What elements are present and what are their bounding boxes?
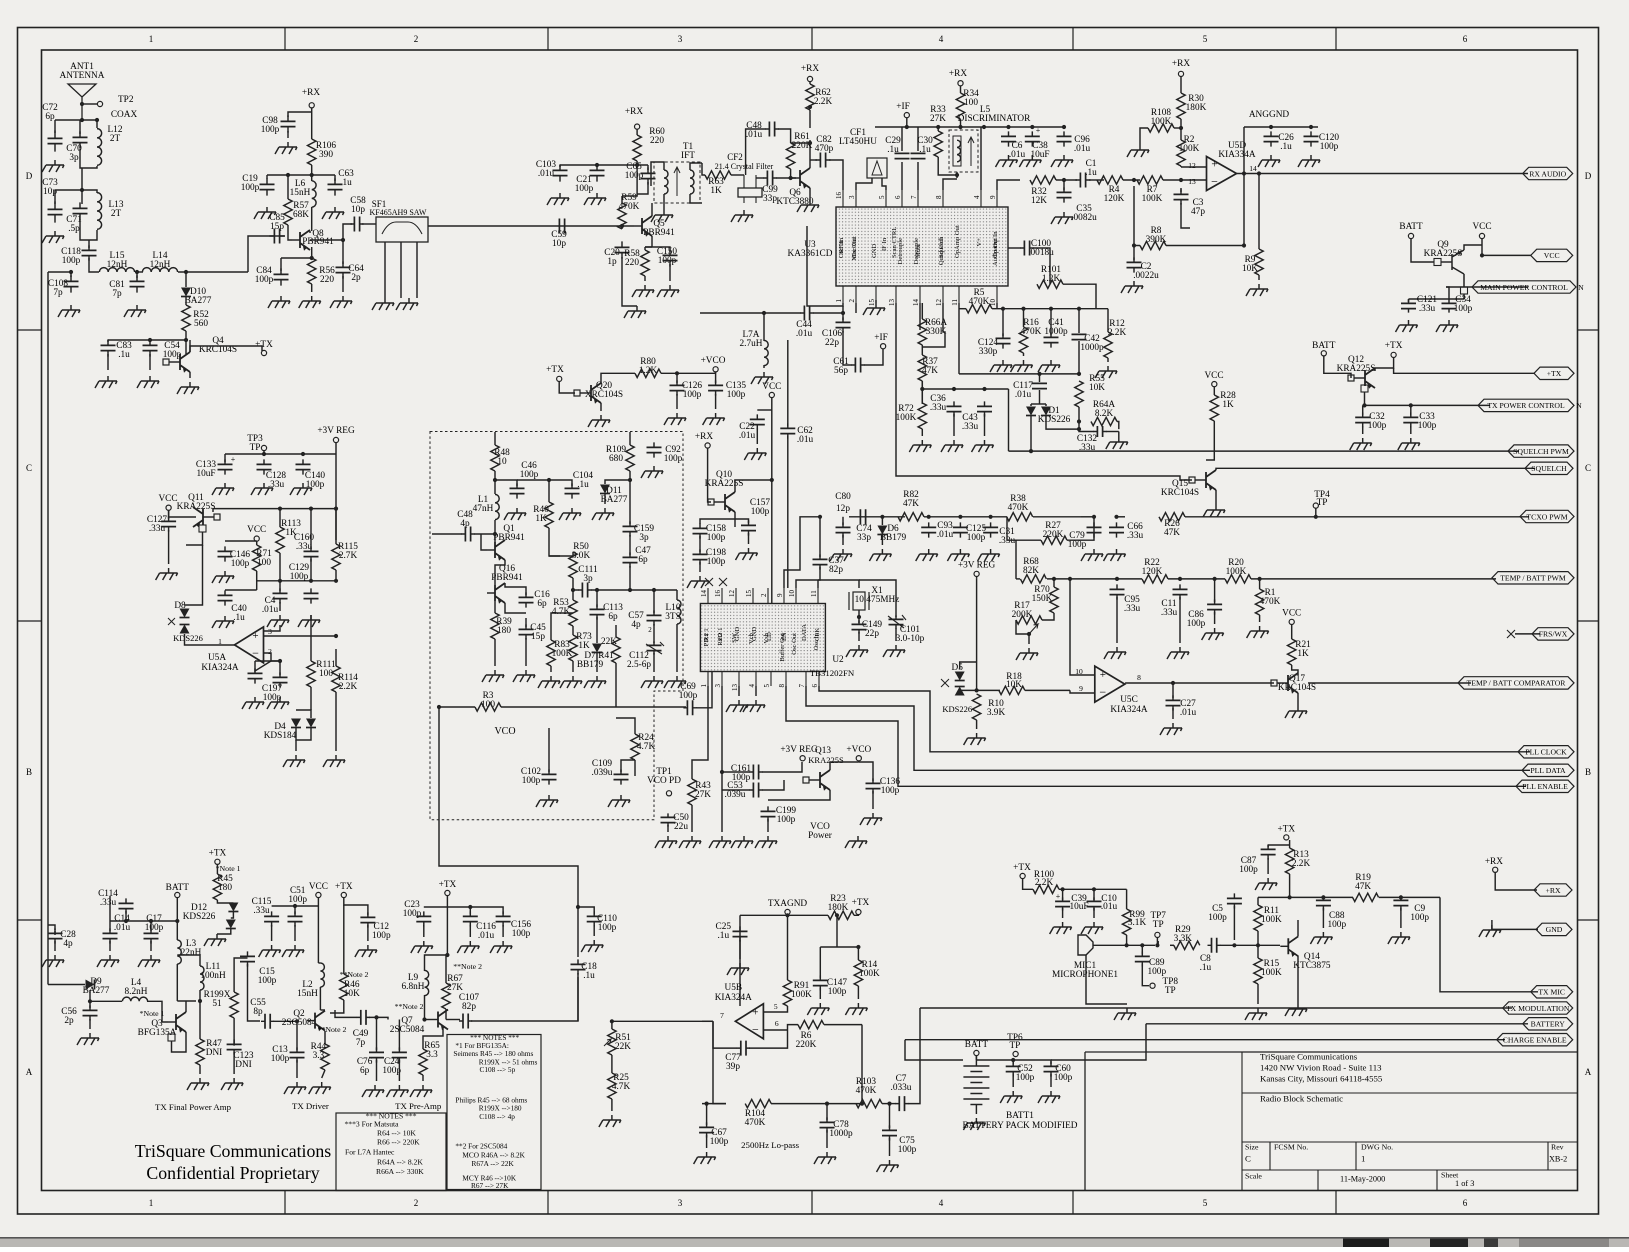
wire [310, 559, 312, 581]
svg-text:C: C [26, 463, 32, 473]
wire [1033, 248, 1050, 270]
svg-text:R1947K: R1947K [1355, 873, 1371, 892]
wire [975, 1104, 977, 1114]
wire audio out [997, 180, 1020, 190]
resistor R20 [1225, 575, 1251, 583]
wire charge enable line [905, 1039, 1505, 1041]
wire u5c minus [1070, 690, 1095, 693]
wire CF1 pin3 [856, 178, 872, 190]
ground [212, 483, 234, 495]
wire [1050, 1074, 1052, 1087]
wire [311, 108, 313, 139]
wire discriminator rail [875, 126, 1064, 128]
wire [830, 762, 859, 770]
power +RX [309, 103, 314, 108]
svg-text:+TX: +TX [209, 849, 227, 859]
svg-text:TX Driver: TX Driver [292, 1101, 329, 1111]
junction [445, 953, 449, 957]
junction [341, 238, 345, 242]
ground [482, 670, 504, 682]
svg-text:TEMP / BATT PWM: TEMP / BATT PWM [1500, 574, 1566, 583]
junction [1092, 887, 1096, 891]
wire [1181, 166, 1207, 168]
svg-text:C92100p: C92100p [664, 445, 683, 464]
wire [185, 1020, 187, 1022]
power +TX q20 [557, 376, 562, 381]
wire [1446, 287, 1449, 299]
svg-text:A: A [1585, 1067, 1592, 1077]
wire [1007, 517, 1041, 540]
wire [702, 1020, 713, 1022]
power +TX pre [445, 890, 450, 895]
junction [1052, 577, 1056, 581]
U3 pin 5 IF In [885, 190, 887, 207]
svg-text:R47DNI: R47DNI [206, 1039, 223, 1058]
wire [858, 610, 860, 623]
svg-text:VCOPower: VCOPower [808, 822, 833, 841]
wire [82, 103, 97, 105]
wire [446, 1009, 448, 1011]
wire [469, 925, 471, 937]
wire [343, 224, 352, 240]
svg-text:R64 --> 10K: R64 --> 10K [377, 1129, 416, 1138]
junction [628, 478, 632, 482]
svg-text:+TX: +TX [546, 365, 564, 375]
wire [1174, 127, 1181, 129]
wire [854, 914, 858, 916]
capacitor C79 body [1087, 527, 1102, 532]
wire [1107, 309, 1109, 332]
svg-text:KF465AH9 SAW: KF465AH9 SAW [370, 208, 427, 217]
wire [1067, 517, 1094, 540]
svg-text:C129100p: C129100p [289, 563, 309, 582]
svg-text:C123DNI: C123DNI [233, 1051, 253, 1070]
U2 pin 5 LD [770, 672, 772, 687]
capacitor C66 body [1109, 527, 1124, 532]
svg-text:SQUELCH PWM: SQUELCH PWM [1513, 447, 1569, 456]
svg-text:C43.33u: C43.33u [962, 413, 979, 432]
ground [268, 296, 290, 308]
wire [551, 613, 573, 640]
svg-text:C150100p: C150100p [657, 247, 677, 266]
junction [1399, 895, 1403, 899]
svg-text:+TX: +TX [852, 898, 870, 908]
junction [1001, 307, 1005, 311]
wire [604, 494, 606, 504]
wire [1016, 578, 1020, 580]
svg-text:R30180K: R30180K [1186, 94, 1207, 113]
wire [281, 257, 312, 259]
resistor R38 [1007, 513, 1033, 521]
ground [1479, 925, 1501, 937]
wire [1012, 1060, 1014, 1064]
svg-text:+RX: +RX [1172, 59, 1190, 69]
wire [255, 660, 280, 662]
wire 3vreg col [976, 579, 978, 691]
svg-text:C36.33u: C36.33u [930, 394, 947, 413]
ground [664, 413, 686, 425]
svg-text:R1152.7K: R1152.7K [338, 542, 358, 561]
svg-text:C102100p: C102100p [521, 767, 541, 786]
transistor Q3 [176, 1012, 186, 1032]
wire [1213, 387, 1215, 395]
junction [1037, 372, 1041, 376]
wire [1030, 404, 1032, 406]
wire [342, 276, 344, 292]
wire CF1 pin5 [882, 178, 886, 190]
ground [290, 483, 312, 495]
wire [273, 1020, 297, 1022]
ground [42, 160, 64, 172]
wire [176, 964, 178, 1001]
wire [778, 129, 791, 143]
ground [1258, 155, 1280, 167]
junction [1242, 243, 1246, 247]
wire [344, 898, 368, 915]
bottom scan band [0, 1238, 1629, 1247]
wire SF1 leg1 [384, 242, 386, 298]
svg-text:C82470p: C82470p [815, 135, 834, 154]
ground [1121, 281, 1143, 293]
wire [424, 906, 448, 908]
wire to txmod [908, 1008, 920, 1104]
svg-text:C48.01u: C48.01u [746, 121, 763, 140]
svg-text:3: 3 [848, 195, 856, 199]
flag VCC [1531, 249, 1573, 261]
svg-text:TX POWER CONTROL: TX POWER CONTROL [1487, 401, 1565, 410]
junction [95, 118, 99, 122]
svg-text:R8247K: R8247K [903, 490, 919, 509]
wire [343, 905, 345, 974]
battery BATT1 [963, 1066, 989, 1105]
diode D5b [955, 687, 965, 696]
wire [549, 528, 560, 556]
wire batt trunk [176, 898, 178, 940]
junction [124, 919, 128, 923]
wire [600, 403, 602, 411]
U2 pin 12 SW [735, 588, 737, 604]
junction [1309, 125, 1313, 129]
ground [1247, 626, 1269, 638]
svg-text:+TX: +TX [335, 882, 353, 892]
junction [1027, 632, 1031, 636]
svg-text:13: 13 [1188, 177, 1196, 186]
ground [941, 440, 963, 452]
wire mic gnd [1086, 955, 1127, 1004]
wire [294, 925, 296, 941]
wire [311, 165, 313, 181]
wire [644, 276, 646, 281]
wire [1142, 964, 1149, 986]
wire pin11 down [958, 309, 960, 374]
wire [861, 1025, 863, 1104]
wire [1267, 858, 1269, 874]
ground [916, 549, 938, 561]
junction [1171, 681, 1175, 685]
svg-text:3: 3 [714, 684, 722, 688]
ground [1160, 723, 1182, 735]
junction [825, 1102, 829, 1106]
junction [785, 913, 789, 917]
ground [1114, 1008, 1136, 1020]
svg-text:+RX: +RX [1545, 886, 1560, 895]
svg-text:TXAGND: TXAGND [768, 899, 808, 909]
wire vco out left [439, 706, 475, 708]
wire [1023, 309, 1025, 327]
svg-text:ANGGND: ANGGND [1249, 110, 1290, 120]
wire [231, 912, 234, 918]
junction [789, 176, 793, 180]
wire [1140, 128, 1148, 145]
wire [960, 119, 962, 127]
border tick [284, 28, 286, 1215]
svg-text:C15100p: C15100p [258, 967, 277, 986]
wire [895, 628, 897, 641]
svg-text:TriSquare Communications: TriSquare Communications [1260, 1052, 1358, 1062]
svg-text:ANTENNA: ANTENNA [60, 71, 105, 81]
svg-text:+RX: +RX [1485, 857, 1503, 867]
ground [1106, 437, 1128, 449]
wire vcc down to U2 [771, 398, 773, 603]
svg-text:Squelch: Squelch [938, 236, 945, 258]
wire [48, 984, 85, 986]
ground [1398, 438, 1420, 450]
wire [1134, 186, 1140, 246]
wire [54, 931, 56, 935]
svg-text:BATT: BATT [1312, 341, 1336, 351]
svg-text:KDS226: KDS226 [173, 633, 203, 643]
junction [175, 919, 179, 923]
wire [335, 570, 337, 581]
ground [807, 1003, 829, 1015]
wire [634, 760, 636, 776]
U3 pin 7 Detrouple [917, 190, 919, 207]
border tick [1335, 28, 1337, 1215]
wire [89, 1001, 91, 1008]
svg-text:13: 13 [731, 684, 739, 692]
wire [1117, 422, 1119, 430]
svg-text:+: + [231, 455, 236, 464]
wire [342, 240, 344, 264]
wire [763, 365, 765, 368]
svg-text:R70150K: R70150K [1032, 585, 1053, 604]
wire [1220, 944, 1254, 946]
svg-text:C108 --> 5p: C108 --> 5p [480, 1065, 516, 1074]
wire node RF [178, 271, 248, 273]
svg-text:VCC: VCC [247, 525, 266, 535]
wire opamp out [958, 303, 960, 309]
wire [505, 583, 526, 595]
svg-text:BATTERY: BATTERY [1531, 1020, 1566, 1029]
title block [1085, 1052, 1578, 1191]
svg-text:C108 --> 4p: C108 --> 4p [479, 1112, 515, 1121]
ground [204, 934, 226, 946]
flag TX MIC [1531, 986, 1573, 998]
ground [996, 155, 1018, 167]
wire [651, 162, 664, 186]
junction [920, 387, 924, 391]
wire [495, 560, 505, 585]
U2 pin 7 DATA [805, 672, 807, 687]
wire [425, 1019, 431, 1021]
svg-text:R15100K: R15100K [1261, 959, 1282, 978]
U2 pin 14 PD 2 [707, 588, 709, 604]
wire [446, 896, 448, 907]
wire [875, 300, 877, 303]
wire [691, 805, 693, 816]
wire [1081, 516, 1094, 518]
wire [1375, 357, 1394, 371]
wire [550, 666, 552, 672]
wire [1107, 358, 1109, 362]
ground [584, 676, 606, 688]
wire comparator line2 [1308, 682, 1471, 684]
junction [1314, 515, 1318, 519]
wire [636, 161, 638, 165]
wire [54, 190, 56, 204]
wire [335, 443, 337, 454]
wire [601, 373, 635, 383]
wire [549, 555, 573, 557]
ground [298, 615, 320, 627]
flag FRS/WX [1532, 628, 1574, 640]
svg-text:VCC: VCC [309, 882, 328, 892]
svg-text:14: 14 [912, 299, 920, 307]
junction [1321, 895, 1325, 899]
ground [1245, 1008, 1267, 1020]
wire [1215, 490, 1217, 505]
wire [81, 190, 83, 204]
wire [1062, 889, 1064, 900]
wire [776, 177, 796, 179]
wire [125, 911, 127, 921]
svg-text:+: + [1211, 159, 1217, 171]
VCO dashed box [430, 432, 683, 820]
ground [1285, 706, 1307, 718]
wire [559, 165, 561, 167]
junction [958, 515, 962, 519]
wire [1268, 844, 1290, 846]
ground [309, 1082, 331, 1094]
wire scan ctrl to Q15 [896, 303, 1192, 480]
junction [1049, 307, 1053, 311]
wire [690, 163, 702, 170]
wire left trunk v [47, 272, 49, 985]
ground [323, 755, 345, 767]
svg-text:R38470K: R38470K [1008, 494, 1029, 513]
wire [271, 925, 273, 941]
svg-text:R5768K: R5768K [293, 201, 309, 220]
wire [809, 110, 811, 128]
ground [58, 305, 80, 317]
wire SF1 leg3 [416, 242, 418, 298]
junction [818, 515, 822, 519]
wire [612, 1021, 625, 1029]
U3 pin 3 Mix Out [855, 190, 857, 207]
wire [889, 1138, 891, 1156]
svg-text:C147100p: C147100p [827, 978, 847, 997]
wire [787, 915, 789, 980]
svg-text:RX AUDIO: RX AUDIO [1529, 169, 1566, 178]
wire [296, 1060, 298, 1078]
junction [1077, 419, 1081, 423]
ground [283, 755, 305, 767]
svg-text:14: 14 [1249, 164, 1257, 173]
flag TEMP/BATT COMPARATOR [1458, 677, 1574, 689]
ground [490, 941, 512, 953]
ground [137, 376, 159, 388]
svg-text:6: 6 [1463, 34, 1468, 44]
wire PLL ENABLE line [786, 686, 1526, 786]
wire [629, 535, 631, 555]
wire [109, 896, 111, 921]
wire [311, 247, 313, 256]
wire [748, 533, 750, 544]
wire main power line [1446, 286, 1528, 288]
svg-text:TEMP / BATT COMPARATOR: TEMP / BATT COMPARATOR [1467, 679, 1567, 688]
wire [1257, 984, 1259, 1004]
wire [48, 925, 55, 930]
junction [286, 173, 290, 177]
svg-text:C93.01u: C93.01u [937, 521, 954, 540]
wire [225, 540, 257, 542]
wire [788, 1025, 799, 1030]
wire [813, 306, 843, 313]
junction [1242, 171, 1246, 175]
svg-text:5: 5 [878, 195, 886, 199]
wire [422, 1075, 424, 1081]
wire osc in [807, 226, 843, 306]
wire [843, 346, 852, 365]
junction [576, 905, 580, 909]
wire [560, 164, 648, 166]
wire [1441, 261, 1452, 263]
wire [1291, 624, 1293, 639]
wire [593, 925, 595, 936]
wire [494, 601, 496, 613]
junction [493, 532, 497, 536]
svg-text:GND: GND [734, 626, 741, 641]
ground [679, 836, 701, 848]
ground [177, 382, 199, 394]
ground [1350, 438, 1372, 450]
wire [577, 895, 579, 957]
svg-text:TB31202FN: TB31202FN [810, 668, 855, 678]
wire [335, 692, 337, 751]
wire [177, 955, 200, 966]
svg-text:TCXO PWM: TCXO PWM [1526, 512, 1567, 521]
wire q13 base [768, 790, 830, 800]
wire 3vreg down [335, 454, 337, 540]
wire [233, 1052, 235, 1074]
svg-text:CHARGE ENABLE: CHARGE ENABLE [1503, 1036, 1567, 1045]
svg-text:2: 2 [414, 1198, 419, 1208]
svg-text:+RX: +RX [949, 69, 967, 79]
svg-text:DATA: DATA [801, 624, 808, 641]
svg-text:12: 12 [728, 590, 736, 598]
wire [263, 451, 265, 454]
svg-text:2: 2 [414, 34, 419, 44]
wire [1289, 874, 1291, 897]
wire [107, 354, 109, 370]
wire [976, 1060, 1051, 1064]
ground [156, 568, 178, 580]
ground [386, 1085, 408, 1097]
svg-text:R503.0K: R503.0K [572, 542, 591, 561]
wire [1410, 426, 1412, 434]
power +RX 5 [1178, 71, 1183, 76]
wire [279, 553, 281, 581]
